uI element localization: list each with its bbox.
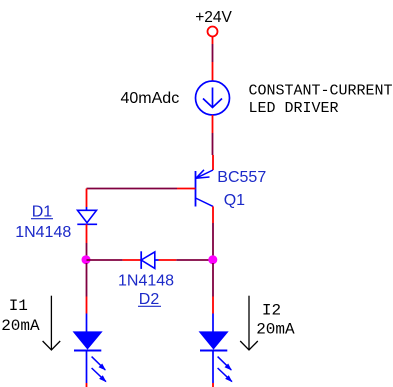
junction node A: [82, 255, 91, 264]
LED DS1: [74, 297, 107, 387]
wire base run: [87, 188, 178, 190]
wire: [212, 133, 214, 155]
transistor Q1: [177, 155, 213, 223]
svg-text:40mAdc: 40mAdc: [121, 90, 180, 107]
svg-text:1N4148: 1N4148: [15, 224, 71, 241]
junction node B: [208, 255, 217, 264]
diode D2: [123, 251, 177, 269]
wire middle horizontal left: [87, 259, 123, 261]
svg-text:1N4148: 1N4148: [118, 273, 174, 290]
diode D1: [77, 189, 97, 244]
svg-text:D1: D1: [32, 204, 53, 221]
wire collector down: [212, 223, 214, 256]
wire middle horizontal right: [176, 259, 213, 261]
wire: [86, 263, 88, 297]
wire: [212, 263, 214, 297]
svg-text:20mA: 20mA: [256, 321, 295, 339]
svg-text:BC557: BC557: [217, 169, 266, 186]
current arrow I1: [43, 296, 61, 350]
svg-text:+24V: +24V: [195, 9, 232, 26]
svg-text:D2: D2: [139, 291, 160, 308]
svg-text:I1: I1: [9, 297, 28, 315]
power terminal +24V: [208, 27, 218, 45]
svg-text:CONSTANT-CURRENT: CONSTANT-CURRENT: [249, 83, 393, 100]
svg-text:20mA: 20mA: [1, 317, 40, 335]
current arrow I2: [240, 296, 258, 350]
svg-text:I2: I2: [262, 301, 281, 319]
wire: [86, 243, 88, 256]
wire: [212, 44, 214, 62]
current source I3: [196, 62, 230, 133]
svg-text:Q1: Q1: [224, 192, 245, 209]
LED DS2: [200, 297, 233, 387]
svg-text:LED DRIVER: LED DRIVER: [249, 100, 339, 117]
